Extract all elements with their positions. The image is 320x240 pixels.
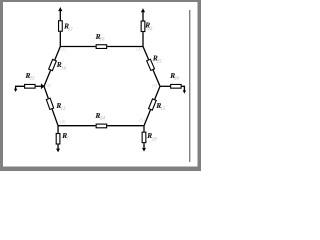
svg-text:(1): (1) [60, 47, 66, 52]
svg-text:10: 10 [100, 37, 105, 42]
svg-text:25: 25 [156, 60, 162, 65]
svg-text:(3): (3) [152, 83, 158, 88]
svg-text:26: 26 [173, 77, 179, 82]
svg-text:(4): (4) [46, 83, 52, 88]
svg-text:(5): (5) [139, 117, 145, 122]
svg-text:(0): (0) [60, 119, 66, 124]
svg-text:25: 25 [29, 77, 35, 82]
svg-text:27: 27 [67, 28, 73, 33]
svg-text:19: 19 [152, 137, 157, 142]
svg-text:15: 15 [160, 107, 165, 112]
svg-text:(2): (2) [136, 47, 142, 52]
svg-text:16: 16 [61, 67, 66, 72]
svg-text:22: 22 [147, 27, 153, 32]
svg-text:12: 12 [61, 107, 66, 112]
svg-text:24: 24 [99, 116, 105, 121]
